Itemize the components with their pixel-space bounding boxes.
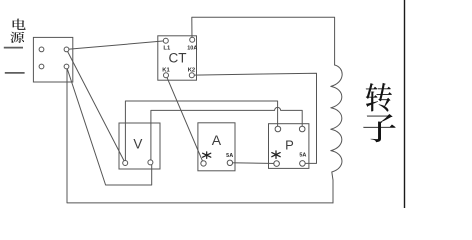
asterisk polarity mark on P: [272, 151, 280, 159]
power source terminal box: [33, 37, 72, 82]
P terminals: [275, 126, 281, 132]
A terminals: [201, 161, 206, 166]
svg-text:V: V: [133, 137, 142, 152]
svg-text:K1: K1: [162, 67, 170, 73]
label 转子 (rotor): [363, 83, 396, 142]
upper potential bus: V left terminal to P top-left: [125, 101, 277, 163]
voltmeter V box: [119, 123, 160, 169]
bottom return wire to power bottom-right terminal: [67, 67, 333, 203]
svg-text:K2: K2: [188, 67, 195, 73]
power terminal dash 2: [5, 72, 25, 74]
wire A right terminal to P bottom-left terminal: [230, 162, 277, 165]
power terminal dash 1: [4, 47, 23, 49]
svg-text:L1: L1: [163, 45, 171, 51]
CT terminal L1: [163, 38, 168, 43]
V terminals: [123, 161, 128, 166]
label 电源 (power source): [10, 19, 25, 43]
rotor boundary line: [404, 0, 406, 208]
wire power top-right diagonal to V left terminal: [67, 49, 126, 163]
rotor coil winding: [331, 65, 342, 203]
svg-text:P: P: [285, 137, 294, 152]
ammeter A box: [198, 123, 235, 171]
svg-text:CT: CT: [169, 50, 187, 65]
CT terminal K2: [189, 73, 194, 78]
wire CT K1 diagonal to A left terminal: [166, 75, 204, 163]
CT terminal 10A: [190, 37, 195, 42]
svg-text:A: A: [212, 132, 222, 148]
wire P bottom-right up to CT K2: [194, 73, 317, 163]
lower potential bus: V right terminal to P top-right, hop at crossing: [151, 107, 302, 162]
svg-text:10A: 10A: [187, 45, 197, 51]
asterisk polarity mark on A: [203, 152, 211, 159]
CT box U1: [158, 36, 197, 80]
CT terminal K1: [164, 73, 169, 78]
wire CT 10A up, across top, down to rotor coil: [192, 17, 335, 65]
svg-text:5A: 5A: [226, 153, 233, 159]
svg-text:5A: 5A: [299, 153, 306, 159]
wire power bottom-right to V right terminal via low corner: [67, 67, 152, 186]
wattmeter P box: [269, 124, 309, 169]
power terminals: [39, 47, 44, 52]
wire power top-right to CT L1: [67, 41, 166, 50]
